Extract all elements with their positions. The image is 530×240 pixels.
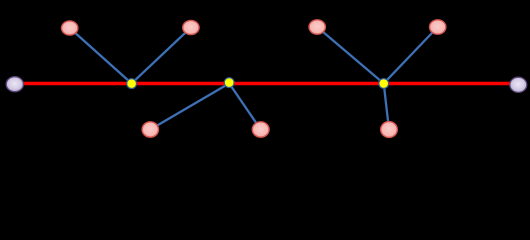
node Y1 yellow path vertex xyxy=(127,79,137,89)
red path wire xyxy=(15,82,519,85)
edge P1-Y1 xyxy=(70,28,132,83)
node L1 lavender left terminal xyxy=(6,77,23,92)
edge P4-Y3 xyxy=(384,27,438,83)
node P3 pink xyxy=(309,20,325,34)
node P2 pink xyxy=(183,20,199,34)
node PB1 pink bottom xyxy=(142,122,158,137)
edge PB1-Y2 xyxy=(150,83,229,129)
edge P3-Y3 xyxy=(317,27,384,83)
node PB2 pink bottom xyxy=(252,122,269,137)
node Y3 yellow path vertex xyxy=(379,79,389,89)
node P4 pink xyxy=(430,20,446,34)
node L2 lavender right terminal xyxy=(510,77,527,92)
edge PB3-Y3 xyxy=(384,83,389,129)
node P1 pink xyxy=(61,21,77,35)
node PB3 pink bottom xyxy=(381,122,398,138)
node Y2 yellow path vertex xyxy=(224,78,234,88)
edge PB2-Y2 xyxy=(229,83,261,129)
edge P2-Y1 xyxy=(132,28,191,84)
